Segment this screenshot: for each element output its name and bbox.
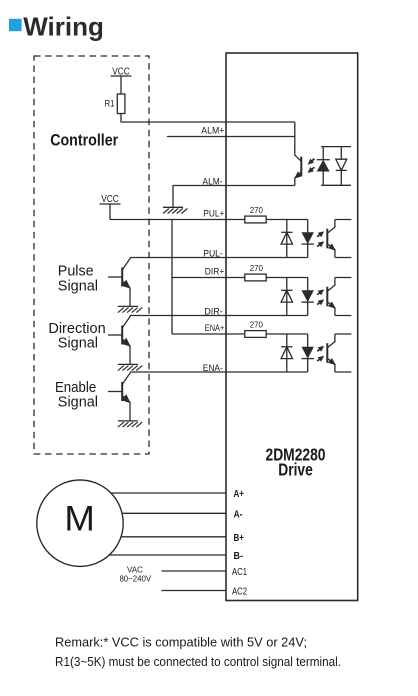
svg-text:Signal: Signal — [58, 335, 98, 352]
label Pulse Signal — [58, 263, 98, 295]
remark note — [55, 635, 341, 669]
svg-text:PUL-: PUL- — [203, 248, 223, 258]
wire A+ (motor phase) — [80, 492, 226, 494]
opto U2 phototransistor — [327, 220, 351, 258]
svg-text:Remark:* VCC is compatible wit: Remark:* VCC is compatible with 5V or 24… — [55, 635, 307, 649]
label VAC 80~240V — [119, 566, 151, 584]
wire AC2 — [162, 590, 227, 592]
drive box — [226, 53, 358, 601]
svg-text:B-: B- — [234, 551, 244, 562]
wire DIR+ — [172, 277, 308, 279]
controller dashed box — [34, 56, 149, 454]
svg-text:AC2: AC2 — [232, 587, 247, 598]
opto U2 protection diode — [281, 220, 292, 258]
wire ALM+ — [167, 136, 295, 138]
wire VCC stem to PUL+ — [109, 204, 111, 220]
opto U2 light arrows — [317, 231, 324, 247]
wire B- (motor phase) — [80, 554, 226, 556]
wire R1 to ALM+ node — [121, 114, 295, 123]
svg-text:A-: A- — [234, 510, 243, 521]
svg-text:80~240V: 80~240V — [119, 574, 151, 583]
wire AC1 — [162, 570, 227, 572]
svg-text:R1: R1 — [105, 99, 115, 109]
opto U3 LED — [302, 278, 314, 316]
title bullet — [9, 19, 22, 31]
label Direction Signal — [48, 320, 105, 352]
opto U3 protection diode — [281, 278, 292, 316]
ground (Q2) — [118, 364, 142, 370]
opto U4 protection diode — [281, 334, 292, 372]
label Enable Signal — [55, 379, 98, 410]
svg-text:Wiring: Wiring — [23, 11, 104, 41]
opto U3 light arrows — [317, 289, 324, 305]
svg-text:DIR+: DIR+ — [205, 267, 225, 277]
svg-text:Signal: Signal — [58, 278, 98, 295]
motor M1 — [37, 480, 123, 566]
opto U1 phototransistor (ALM output) — [294, 122, 302, 186]
svg-text:Controller: Controller — [50, 130, 118, 149]
opto U3 phototransistor — [327, 278, 351, 316]
svg-text:M: M — [64, 499, 95, 539]
svg-text:ENA+: ENA+ — [205, 323, 225, 333]
transistor Q3 (enable signal) — [108, 373, 131, 421]
wire VCC tie PUL+/DIR+/ENA+ — [171, 220, 173, 335]
transistor Q1 (pulse signal) — [108, 258, 131, 306]
svg-text:270: 270 — [250, 263, 264, 273]
svg-text:DIR-: DIR- — [204, 306, 223, 316]
opto U2 LED — [302, 220, 314, 258]
wire DIR- — [130, 315, 308, 317]
svg-text:270: 270 — [250, 205, 264, 215]
svg-text:AC1: AC1 — [232, 567, 247, 578]
wire ENA- — [130, 371, 308, 373]
resistor 270 (ENA) — [245, 331, 266, 338]
ground (Q3) — [118, 421, 142, 427]
svg-text:R1(3~5K) must be connected to: R1(3~5K) must be connected to control si… — [55, 655, 341, 669]
ground (controller, ALM-) — [163, 207, 187, 213]
svg-text:ALM+: ALM+ — [201, 126, 224, 136]
svg-text:Drive: Drive — [278, 460, 313, 480]
svg-text:PUL+: PUL+ — [203, 209, 224, 219]
svg-text:270: 270 — [250, 320, 264, 330]
wire B+ (motor phase) — [80, 536, 226, 538]
svg-text:VCC: VCC — [101, 193, 119, 205]
wire A- (motor phase) — [80, 512, 226, 514]
wire PUL+ — [110, 219, 308, 221]
opto U4 phototransistor — [327, 334, 351, 372]
resistor R1 — [117, 94, 125, 114]
svg-text:A+: A+ — [234, 489, 244, 500]
svg-text:Signal: Signal — [58, 394, 98, 411]
opto U1 LED (ALM, inside drive) — [317, 147, 351, 186]
svg-text:ENA-: ENA- — [203, 363, 223, 373]
resistor 270 (PUL) — [245, 216, 266, 223]
wire ENA+ — [172, 333, 308, 335]
opto U1 protection diode (ALM) — [336, 147, 347, 186]
resistor 270 (DIR) — [245, 274, 266, 281]
svg-text:VAC: VAC — [127, 566, 143, 575]
ground (Q1) — [118, 306, 142, 312]
transistor Q2 (direction signal) — [108, 316, 131, 364]
wire ALM- to controller ground — [173, 186, 295, 208]
wire PUL- — [130, 257, 308, 259]
drive label 2DM2280 Drive — [266, 445, 326, 480]
opto U4 LED — [302, 334, 314, 372]
power VCC (R1 pull-up) — [111, 66, 132, 78]
svg-text:ALM-: ALM- — [203, 176, 223, 186]
opto U4 light arrows — [317, 346, 324, 362]
opto U1 light arrows (pointing left) — [308, 159, 315, 173]
svg-text:B+: B+ — [234, 533, 245, 544]
power VCC (opto common anode) — [100, 193, 121, 205]
wire VCC to R1 — [120, 76, 122, 94]
